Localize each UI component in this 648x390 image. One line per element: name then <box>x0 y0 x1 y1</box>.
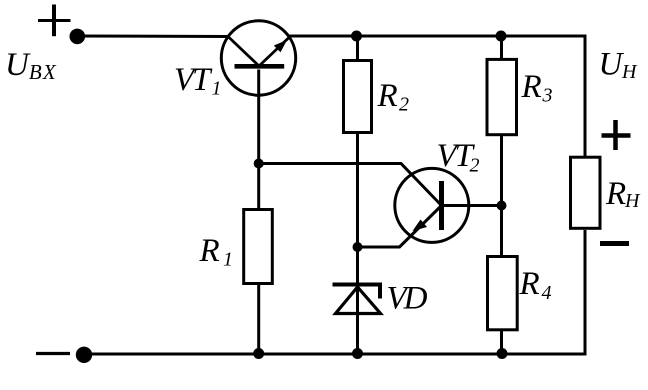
svg-text:R: R <box>521 69 542 105</box>
svg-text:H: H <box>621 61 638 83</box>
transistor VT1 <box>221 21 295 95</box>
svg-text:R: R <box>605 176 626 212</box>
svg-text:1: 1 <box>212 78 222 100</box>
svg-text:VD: VD <box>387 281 428 317</box>
svg-text:U: U <box>599 47 625 83</box>
node input - terminal dot <box>76 347 92 363</box>
svg-text:VT: VT <box>174 62 213 98</box>
zener diode VD <box>333 285 383 314</box>
svg-text:UBX: UBX <box>5 47 57 84</box>
svg-text:R: R <box>519 266 540 302</box>
wire VD vertical <box>356 247 359 354</box>
svg-text:2: 2 <box>470 155 480 177</box>
resistor RH load <box>571 157 601 228</box>
svg-text:3: 3 <box>542 85 553 107</box>
junction dot divider <box>497 201 507 211</box>
junction dot rail R4 <box>497 348 508 359</box>
wire R1 bottom lead <box>257 285 260 354</box>
terminal plus (output +) <box>602 120 631 150</box>
svg-text:R: R <box>199 233 220 269</box>
junction dot rail R1 <box>253 348 264 359</box>
transistor VT2 <box>358 168 469 247</box>
wire R2 bottom lead <box>356 133 359 248</box>
resistor R4 <box>488 257 518 330</box>
wire VT1 base to VT2 collector <box>259 164 441 206</box>
svg-text:H: H <box>624 190 641 212</box>
svg-text:R: R <box>377 78 398 114</box>
wire top rail left <box>77 35 229 39</box>
wire R2 top lead <box>356 36 359 61</box>
junction dot top R3 <box>496 31 507 42</box>
wire R3 bottom lead <box>500 134 503 206</box>
junction dot VT1 base <box>254 159 264 169</box>
wire R4 top lead <box>500 206 503 256</box>
terminal minus (input -) <box>36 352 70 355</box>
svg-text:4: 4 <box>542 282 552 304</box>
resistor R1 <box>244 210 273 284</box>
wire VT1 base lead <box>257 70 260 209</box>
junction dot top R2 <box>351 31 362 42</box>
junction dot rail VD <box>352 348 363 359</box>
terminal minus (output -) <box>600 241 629 246</box>
junction dot VT2 emitter / VD <box>353 242 363 252</box>
wire VT2 base to divider <box>442 204 502 207</box>
svg-text:1: 1 <box>223 249 233 271</box>
svg-text:2: 2 <box>399 94 409 116</box>
node input + terminal dot <box>70 29 86 45</box>
wire R4 bottom lead <box>500 331 503 354</box>
resistor R3 <box>487 59 517 134</box>
wire bottom rail <box>84 353 585 356</box>
wire R3 top lead <box>500 36 503 60</box>
wire right rail lower <box>584 230 587 356</box>
resistor R2 <box>344 61 372 133</box>
wire top rail right <box>288 36 585 156</box>
terminal plus (input +) <box>38 5 71 37</box>
